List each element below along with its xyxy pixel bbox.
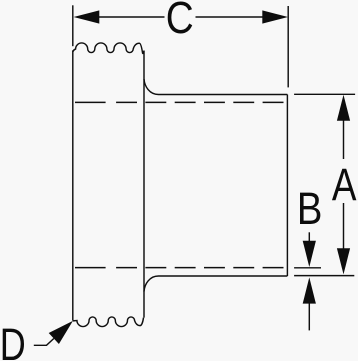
svg-text:B: B xyxy=(297,183,323,234)
extension line C left xyxy=(72,5,74,46)
extension line C right xyxy=(287,6,289,87)
hidden line: bore bottom, dashed run xyxy=(116,267,286,269)
dimension line C left segment xyxy=(99,16,165,18)
part outline: shoulder junction line xyxy=(143,51,145,318)
dimension line C right segment xyxy=(196,16,264,18)
part outline: top fillet xyxy=(144,79,159,95)
hidden line: bore top, first long dash xyxy=(75,101,106,103)
part outline: left edge xyxy=(72,50,74,320)
part outline: tube end face xyxy=(286,95,288,277)
hidden line: bore bottom, first long dash xyxy=(75,267,106,269)
arrowhead A down xyxy=(337,248,350,274)
arrowhead B down xyxy=(303,241,316,267)
arrowhead C right xyxy=(262,10,288,23)
svg-text:D: D xyxy=(0,319,26,361)
svg-text:C: C xyxy=(166,0,194,42)
arrowhead B up xyxy=(303,277,316,303)
part outline: bottom fillet xyxy=(144,276,159,292)
part outline: top serrated edge xyxy=(73,43,144,54)
part outline: bottom serrated edge xyxy=(73,317,144,327)
dimension line B upper tail xyxy=(308,232,310,241)
extension line A/B bottom xyxy=(294,275,354,277)
dimension line A lower tail xyxy=(343,203,345,249)
dimension line A upper tail xyxy=(343,120,345,160)
extension line B top (bore) xyxy=(294,267,321,269)
part outline: tube bottom line xyxy=(159,275,288,277)
extension line A top xyxy=(294,93,355,95)
dimension line B lower tail xyxy=(308,302,310,330)
leader line D xyxy=(34,339,54,346)
svg-text:A: A xyxy=(332,160,357,210)
arrowhead A up xyxy=(337,95,350,121)
part outline: tube top line xyxy=(159,94,288,96)
arrowhead C left xyxy=(74,10,100,23)
hidden line: bore top, dashed run xyxy=(116,101,287,103)
arrowhead D leader xyxy=(49,321,73,344)
